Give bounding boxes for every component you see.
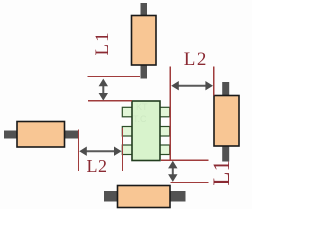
svg-text:L2: L2 xyxy=(87,156,108,176)
svg-text:T.C: T.C xyxy=(133,114,147,124)
svg-text:KT: KT xyxy=(136,102,148,112)
svg-text:L2: L2 xyxy=(184,49,208,70)
svg-text:L1: L1 xyxy=(92,30,113,55)
svg-text:L1: L1 xyxy=(209,160,234,186)
